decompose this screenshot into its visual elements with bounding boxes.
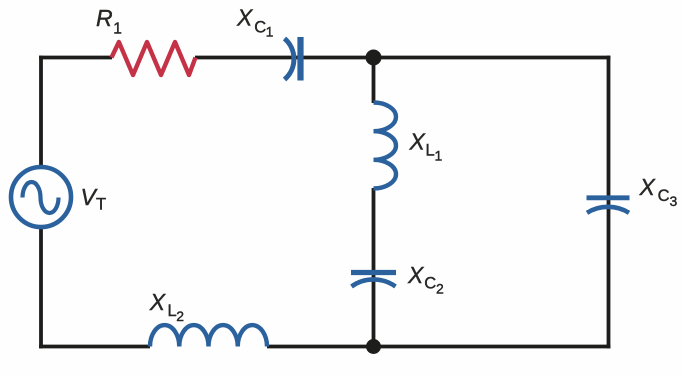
source VT (AC source circle with sine) <box>11 167 71 227</box>
svg-text:R: R <box>96 5 113 31</box>
svg-text:L: L <box>426 142 435 160</box>
wire: left vertical upper (source top to top-left corner) <box>39 56 610 349</box>
svg-text:T: T <box>96 196 106 214</box>
wire: top middle (resistor to node A and to top-right corner) <box>195 56 610 60</box>
svg-text:1: 1 <box>266 24 274 40</box>
wire: bottom left (inductor XL2 to bottom-left corner) <box>39 345 150 349</box>
svg-text:X: X <box>236 5 254 31</box>
capacitor XC3 (straight plate + curved plate) <box>587 198 630 213</box>
svg-text:C: C <box>658 187 670 205</box>
resistor R1 <box>112 42 196 75</box>
wire: right vertical (top-right corner to bottom-right corner) <box>607 56 611 349</box>
capacitor XC2 (straight plate + curved plate) <box>351 273 396 287</box>
node B (bottom junction dot) <box>366 339 381 354</box>
wire: left vertical lower (bottom-left corner to source bottom) <box>39 227 43 348</box>
node A (top junction dot) <box>366 50 382 66</box>
wire: middle branch vertical (node A through XL1, XC2 to node B) <box>372 58 376 347</box>
svg-text:X: X <box>639 174 657 200</box>
svg-text:C: C <box>424 275 436 293</box>
capacitor XC1 (curved plate + bar) <box>285 37 301 81</box>
svg-text:2: 2 <box>436 281 444 297</box>
inductor XL1 <box>374 103 397 189</box>
svg-text:C: C <box>254 19 266 37</box>
svg-text:1: 1 <box>113 20 122 37</box>
svg-text:X: X <box>149 289 167 315</box>
svg-text:X: X <box>407 262 425 288</box>
svg-text:2: 2 <box>176 308 184 324</box>
svg-text:1: 1 <box>435 148 443 164</box>
svg-text:X: X <box>409 128 427 154</box>
inductor XL2 <box>150 325 267 346</box>
svg-text:3: 3 <box>670 193 678 209</box>
wire: bottom right (bottom-right corner to inductor XL2) <box>267 345 610 349</box>
wire: top-left horizontal (corner to resistor) <box>39 56 112 60</box>
